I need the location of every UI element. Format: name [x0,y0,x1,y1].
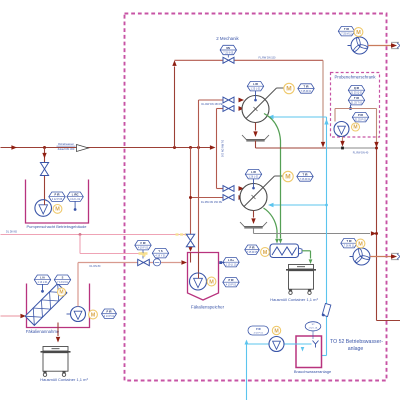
service water up arrow [324,119,328,125]
svg-text:S: S [62,276,64,280]
S1 discharge to funnel [253,123,257,138]
motor M fan F2 [356,239,365,248]
flow arrow on main inlet [11,145,17,149]
svg-text:Rohabwasser: Rohabwasser [58,142,74,146]
svg-text:7 25 M 05: 7 25 M 05 [247,251,258,254]
svg-text:7 26 M 11: 7 26 M 11 [344,245,355,248]
svg-text:7 25 M 01: 7 25 M 01 [301,90,312,93]
tag pair level LIC sump [67,192,83,201]
pump P3 in Speicher [190,273,207,290]
svg-text:7 25 9 05: 7 25 9 05 [223,51,234,54]
brauchwasser box [296,336,322,368]
arrow down into drain header [321,142,325,148]
svg-text:4 13 P 01: 4 13 P 01 [104,315,115,318]
drum screen S2 feed valve upper [223,186,234,192]
off-page flow pennant [77,145,89,152]
label TO 52 [330,339,383,352]
riser feed drum screens (common) [217,109,224,189]
svg-text:Zulauf DN 300: Zulauf DN 300 [58,147,75,151]
arrow into S1 lower [239,106,245,111]
tank Faekalienspeicher [188,253,219,301]
tag pair speicher pump [223,278,239,287]
arrow into speicher wall [181,260,187,264]
junction node drain/collector [375,147,378,150]
drum screen S1 feed valve lower [223,106,234,112]
screenings drop to container C1 [57,323,59,337]
arrow into S2 upper [239,186,245,191]
yellow highlight on pink line [176,233,187,235]
arrow drain S2 into collector [371,231,377,235]
svg-text:FL.RW DN 40: FL.RW DN 40 [353,152,369,155]
inlet label Rohabwasser [57,142,76,151]
svg-text:P IR: P IR [256,328,261,331]
tag pair S1 level [247,82,263,91]
svg-text:T IR: T IR [303,172,308,176]
drum screen S2 shaft diagonal [244,176,283,207]
line label FL.RW DN 150 [259,56,277,59]
tag pair annahme level [34,275,50,284]
tag pair inlet flow FIR [135,241,151,250]
stem into S2 [252,179,255,190]
svg-text:P IR: P IR [55,193,60,197]
svg-text:Hausmüll Container 1,1 m³: Hausmüll Container 1,1 m³ [270,297,318,302]
junction node drum2 lower branch [189,196,192,199]
control valve on DN80 [138,259,150,265]
sampler cabinet dashed box [331,73,380,138]
svg-text:M: M [285,174,290,181]
motor M conveyor [58,288,66,296]
sampler pump [334,122,349,137]
svg-text:TO 52 Betriebswasser-: TO 52 Betriebswasser- [330,339,383,345]
tag pair wash press [245,245,260,254]
valve positioner circle [153,259,160,266]
downcomer 2 Mechanik to drain [322,60,324,142]
label DL.RW DN 150 PE (lower) [201,201,223,204]
svg-text:21 25 T 01: 21 25 T 01 [351,102,363,105]
label Faekalienspeicher [191,305,225,310]
stem tag to valve [227,55,229,58]
drum screen S1 feed valve upper [223,97,234,103]
arrow up on 2 Mechanik riser [172,60,176,66]
wash press body [270,244,302,258]
svg-text:7 13 M 01: 7 13 M 01 [57,281,68,284]
press discharge arrow [309,259,313,264]
motor M booster [272,326,280,334]
svg-text:2 Mechanik: 2 Mechanik [216,36,239,41]
container C1 Hausmuell [41,347,71,377]
svg-text:21 25 Q 01: 21 25 Q 01 [351,92,363,95]
sampling tie-in node [341,147,344,150]
funnel S2 gray drain [254,229,371,234]
svg-text:DL DN 80: DL DN 80 [90,265,101,268]
valve V-sump (vertical) [40,163,48,176]
yellow highlight on branch [139,252,148,255]
svg-text:T IR: T IR [304,84,309,88]
svg-text:Fäkalienannahme: Fäkalienannahme [26,329,60,334]
arrow sampler suction [340,141,344,147]
screenings arrow S1 [279,239,283,244]
svg-text:4 52 P 01: 4 52 P 01 [254,332,264,334]
tag pair annahme pump [102,309,117,318]
label container C1 [40,377,88,382]
tank Pumpenschacht Betriebsgebaeude [26,180,89,224]
tag pair conveyor [54,275,70,284]
service water to plant drop [246,344,248,400]
svg-text:T IR: T IR [354,96,359,100]
spray arrow S2 [268,203,274,207]
stem annahme level [41,284,44,292]
junction node speicher pump return [197,146,200,149]
pump P1 in Pumpenschacht [35,200,52,217]
tag pair fan F1 [338,27,354,36]
svg-text:T IR: T IR [344,27,349,31]
svg-text:DL.RW DN 150: DL.RW DN 150 [220,140,223,158]
svg-text:1 26 L 01: 1 26 L 01 [249,176,260,179]
drum screen S2 body [240,184,267,211]
stem into S1 [254,91,257,101]
svg-text:MV: MV [226,46,230,50]
junction node pump shaft takeoff [43,146,46,149]
svg-text:1 52 L 01: 1 52 L 01 [308,328,318,330]
label 2 Mechanik [216,36,239,41]
main inlet pipe FL.RW (plant inflow) [1,147,214,149]
motor M annahme pump [89,310,98,319]
svg-text:4 19 Y 01: 4 19 Y 01 [155,255,166,258]
svg-text:P IR: P IR [229,278,234,282]
label DL.RW DN 150 PE (upper) [201,103,223,106]
motor M sampler [352,123,360,131]
svg-text:P IR: P IR [358,113,363,117]
sampler pump discharge [342,137,344,142]
main line end arrow into distributor [210,145,216,149]
svg-text:Brauchwasseranlage: Brauchwasseranlage [294,369,332,374]
svg-text:4 19 F 01: 4 19 F 01 [138,247,149,250]
tanker feed line [1,315,21,317]
junction node speicher feed [189,146,192,149]
container C2 Hausmuell [286,265,316,295]
svg-text:7 25 M 11: 7 25 M 11 [341,33,352,36]
svg-text:7 26 M 01: 7 26 M 01 [300,178,311,181]
junction node pink branch [79,233,82,236]
yellow highlight small [141,253,145,257]
svg-text:L IR: L IR [253,82,258,86]
tag pair fan F2 [341,239,357,248]
motor M press [261,248,270,257]
tag pair sampler QIR [348,86,364,95]
label container C2 [270,297,318,302]
screenings line from S2 [264,208,278,239]
2 Mechanik header pipe [175,59,324,61]
svg-text:1 25 L 01: 1 25 L 01 [251,88,262,91]
riser speicher pump discharge [199,100,224,273]
svg-text:P IR: P IR [250,246,255,250]
svg-text:Y S: Y S [158,249,162,253]
tag pair speicher level [223,258,239,267]
svg-text:Fäkalienspeicher: Fäkalienspeicher [191,305,225,310]
arrow tanker feed [20,314,26,318]
svg-text:M: M [209,279,214,285]
riser speicher gravity feed [191,148,224,248]
tank Faekalienannahme [27,284,90,328]
tag pair S2 level [245,170,261,179]
arrow into S2 lower [239,195,245,200]
valve Speicher feed (vertical) [186,234,194,247]
tag pair S2 motor [297,172,313,181]
pump P2 in annahme [67,307,86,322]
drain header from funnel S1 [256,141,327,149]
service water main drop [322,117,327,356]
svg-text:21 25 P 01: 21 25 P 01 [355,119,367,122]
spray water line to S1 [270,116,327,118]
tag pair sampler TIR [348,96,364,105]
svg-text:4 19 P 01: 4 19 P 01 [226,284,237,287]
LI oval [305,322,321,339]
tag pair S1 motor [298,84,314,93]
motor M fan F1 [354,28,363,37]
junction node gray drain [375,232,378,235]
svg-text:Pumpenschacht Betriebsgebäude: Pumpenschacht Betriebsgebäude [26,224,87,229]
funnel under S1 [242,135,269,141]
arrow into S1 upper [239,98,245,103]
S2 discharge to funnel [251,211,255,225]
svg-text:M: M [286,86,291,93]
label Probenehmerschrank [334,75,376,80]
speicher internal feed lines [191,253,199,274]
tag pair sampler pump [352,113,368,122]
fan F2 outlet duct [370,256,391,258]
motor M speicher pump [207,277,216,286]
svg-text:FL.RW DN 150: FL.RW DN 150 [259,56,277,59]
svg-text:T IR: T IR [347,239,352,243]
svg-text:M: M [358,241,363,247]
svg-text:Probenehmerschrank: Probenehmerschrank [334,75,376,80]
spray junction dot [325,204,328,207]
booster pump [269,337,284,352]
screenings arrow S2 [275,239,279,244]
drain header gray section [327,147,377,149]
vertical line label DL.RW DN 150 [220,140,223,158]
tag pair P1 [49,192,65,201]
booster pump line [247,343,297,345]
motor M1 [53,205,62,214]
svg-text:anlage: anlage [348,346,364,352]
svg-text:M: M [263,250,268,256]
svg-text:4 12 P 05: 4 12 P 05 [52,198,63,201]
annahme pump riser [77,263,79,307]
label DL DN 80 [90,265,101,268]
cyan internal line [296,344,312,352]
svg-text:M: M [59,290,63,296]
junction node 2-Mechanik riser [173,146,176,149]
svg-text:L IA+: L IA+ [228,258,235,262]
svg-text:M: M [274,328,279,334]
screw conveyor in annahme [25,284,67,326]
off-page connector F2 [391,253,400,259]
riser to 2 Mechanik line [174,67,176,148]
spray arrow S1 [268,115,274,119]
flow meter on service water [322,303,331,316]
arrow down into sump valve [42,153,46,159]
svg-text:DL DN 65: DL DN 65 [6,230,17,233]
svg-text:M: M [55,207,60,213]
svg-text:L IRC: L IRC [72,193,79,197]
svg-text:1 13 L 01: 1 13 L 01 [38,281,49,284]
tag pair valve 2 Mechanik [220,45,236,54]
svg-text:F IR: F IR [141,241,146,245]
svg-text:M: M [91,312,96,318]
svg-text:4 12 L 01: 4 12 L 01 [70,198,81,201]
arrow into container C1 [56,337,60,343]
motor M-S1 [284,83,294,93]
drum screen S1 shaft diagonal [246,88,284,119]
valve V-2Mech [223,57,234,63]
svg-text:DL.RW DN 150 PE: DL.RW DN 150 PE [201,201,223,204]
funnel under S2 [240,222,267,228]
svg-text:L I: L I [312,323,315,326]
arrow sampler return [374,142,378,148]
label FL.RW DN 40 [353,152,369,155]
fan F1 (roof vent) [348,37,369,54]
arrow into Speicher [189,247,193,252]
svg-text:P IR: P IR [107,310,112,314]
svg-text:Hausmüll Container 1,1 m³: Hausmüll Container 1,1 m³ [40,377,88,382]
tag pair control valve [152,249,168,258]
outer battery-limit dashed border [125,14,387,381]
stem to positioner [158,257,159,260]
drum screen S2 feed valve lower [223,195,234,201]
collector outlet to edge [377,320,400,322]
motor M-S2 [283,171,293,181]
off-page connector F1 [391,42,400,48]
svg-text:L IR: L IR [251,170,256,174]
cyan corner arrow [245,340,249,345]
svg-text:L IA: L IA [40,276,45,280]
pink branch drop [80,235,144,254]
svg-text:Q IR: Q IR [354,86,359,90]
label pink line [6,230,17,233]
drum screen S1 body [242,96,269,123]
fan F1 outlet duct [368,45,391,47]
spray water line to S2 [270,204,327,206]
pink transfer line DN65 [1,234,191,236]
press discharge line [302,251,311,259]
svg-text:M: M [353,125,357,131]
sampler stem [349,105,352,110]
level probe stem [74,201,77,211]
label Brauchwasseranlage [294,369,332,374]
svg-text:DL.RW DN 150 PE: DL.RW DN 150 PE [201,103,223,106]
label Pumpenschacht [26,224,87,229]
fan F2 (room vent) [350,248,371,265]
faecal delivery line DN80 [78,262,181,264]
svg-text:M: M [356,30,361,36]
stem FIR to valve [142,250,144,259]
screenings line from S1 [264,114,281,239]
stadium tag booster pump [248,326,269,335]
sampler suction piping [335,109,377,143]
funnel in brauchwasser box [313,341,319,348]
collector downpipe right [376,148,378,321]
level stub [219,261,224,264]
riser to pump sump valve [44,148,46,201]
label Faekalienannahme [26,329,60,334]
svg-text:1 19 LI 10: 1 19 LI 10 [226,264,237,267]
